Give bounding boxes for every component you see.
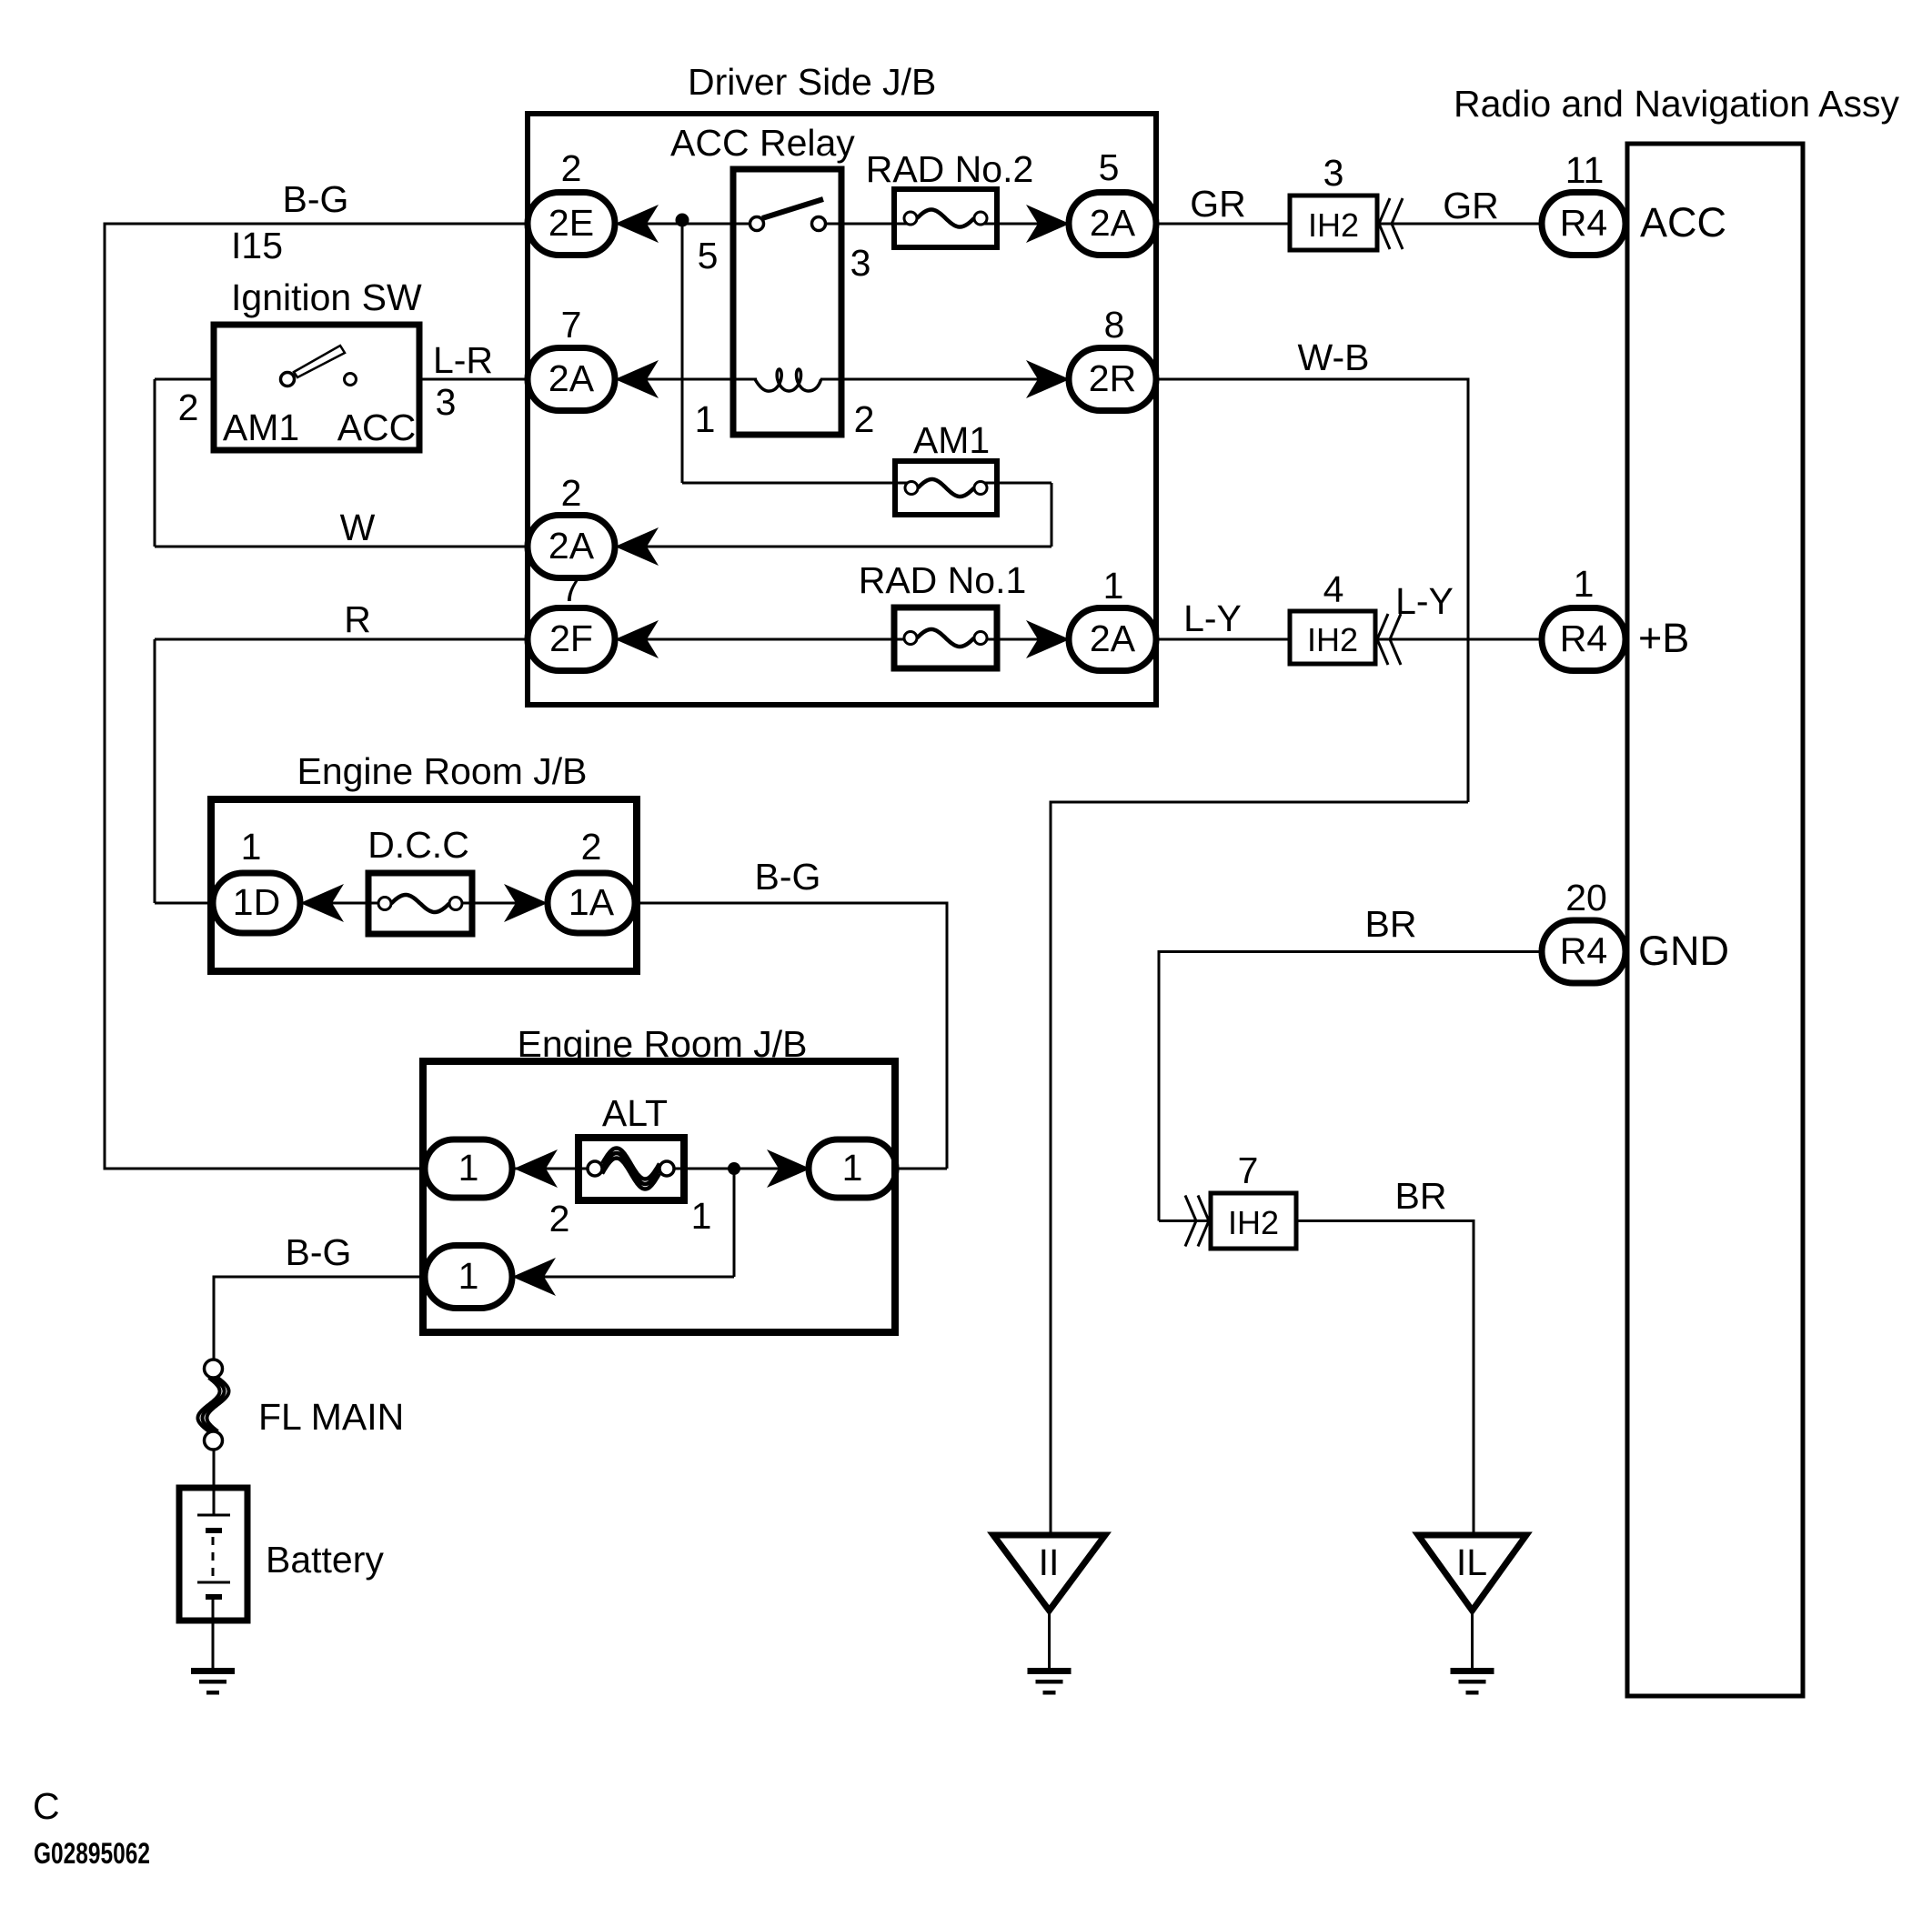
junction box Engine Room J/B upper	[211, 750, 637, 971]
connector 1D pin1	[213, 826, 300, 933]
svg-text:8: 8	[1104, 304, 1125, 346]
wire B-G 1A to Engine Room J/B 2	[635, 902, 947, 1169]
label GR left	[1190, 183, 1246, 225]
wire BR R4 pin20 to IH2 pin7	[1159, 950, 1541, 1221]
fusible link ALT box	[579, 1092, 684, 1200]
svg-text:Battery: Battery	[266, 1539, 384, 1581]
junction box Engine Room J/B upper border	[211, 799, 637, 971]
connector 2A pin5	[1069, 146, 1156, 256]
junction box Engine Room J/B lower	[423, 1023, 895, 1332]
arrow into 1A	[504, 884, 548, 922]
connector 1 right of ALT	[809, 1139, 896, 1198]
wire ALT row	[514, 1168, 810, 1170]
ground below battery	[191, 1668, 235, 1695]
svg-text:3: 3	[850, 242, 871, 284]
wire relay sw to RAD No.2 fuse	[819, 223, 912, 226]
label relay pin 1	[695, 398, 716, 440]
svg-text:1: 1	[691, 1195, 712, 1237]
wire B-G bottom oval to FL MAIN	[214, 1276, 425, 1360]
wire 2A pin7 to relay coil	[615, 378, 757, 381]
arrow into 2F	[615, 620, 659, 658]
arrow into 2A pin7	[615, 360, 659, 398]
svg-text:L-R: L-R	[433, 339, 493, 381]
wire 2A pin1 to IH2 pin4	[1156, 638, 1290, 641]
wire W-B horizontal to II branch	[1051, 801, 1468, 1536]
svg-text:IH2: IH2	[1308, 206, 1359, 244]
svg-text:R: R	[344, 598, 371, 640]
svg-text:1: 1	[241, 826, 262, 868]
svg-text:3: 3	[1323, 152, 1344, 194]
connector 1 left of ALT	[425, 1139, 512, 1198]
svg-text:B-G: B-G	[283, 178, 349, 220]
arrow into 2R	[1026, 360, 1070, 398]
wire W-B 2R right and down	[1156, 378, 1468, 803]
fuse RAD No.2	[866, 148, 1034, 247]
battery plates	[197, 1515, 230, 1668]
connector 2A pin2	[528, 472, 615, 578]
svg-text:7: 7	[561, 304, 582, 346]
connector IH2 pin4	[1290, 568, 1375, 664]
arrow into 1D	[300, 884, 344, 922]
svg-text:2: 2	[854, 398, 875, 440]
wire 2A to IH2 pin3	[1156, 223, 1290, 226]
svg-text:1: 1	[842, 1147, 863, 1189]
chevron at IH2 pin3	[1379, 198, 1403, 249]
label ALT pin 2	[549, 1198, 570, 1240]
svg-text:B-G: B-G	[755, 856, 821, 898]
svg-text:Driver Side J/B: Driver Side J/B	[688, 61, 936, 103]
svg-text:B-G: B-G	[286, 1231, 352, 1273]
junction box Driver Side J/B	[528, 61, 1156, 705]
wire IL to ground	[1471, 1611, 1474, 1668]
svg-text:R4: R4	[1560, 930, 1607, 972]
label B-G top	[283, 178, 349, 220]
label B-G bottom	[286, 1231, 352, 1273]
connector 2R pin8	[1069, 304, 1156, 411]
svg-text:AM1: AM1	[913, 419, 990, 461]
svg-text:11: 11	[1565, 149, 1605, 191]
wire junction down to AM1 fuse	[682, 224, 912, 483]
label Battery	[266, 1539, 384, 1581]
label G02895062	[34, 1837, 150, 1870]
svg-text:GND: GND	[1638, 928, 1729, 974]
connector 1 bottom	[425, 1246, 512, 1309]
label B-G mid	[755, 856, 821, 898]
arrow into bottom 1	[512, 1258, 556, 1296]
svg-text:Engine Room J/B: Engine Room J/B	[297, 750, 587, 792]
connector 2A pin1	[1069, 565, 1156, 671]
svg-text:II: II	[1039, 1541, 1060, 1583]
svg-text:7: 7	[561, 567, 582, 609]
connector R4 pin1 +B	[1542, 563, 1689, 671]
svg-text:AM1: AM1	[223, 406, 299, 448]
fuse RAD No.1	[859, 559, 1027, 668]
svg-text:2: 2	[561, 147, 582, 189]
wire 2F to RAD No.1 fuse	[615, 638, 912, 641]
connector 2F pin7	[528, 567, 615, 671]
fusible link ALT strands	[602, 1149, 659, 1189]
wire L-R ignition pin3 to 2A pin7	[419, 378, 528, 381]
arrow into left 1	[514, 1149, 558, 1188]
wire IH2 pin3 to R4 pin11	[1377, 223, 1542, 226]
junction box Driver Side J/B border	[528, 114, 1156, 705]
fusible link ALT terminals	[588, 1161, 674, 1176]
svg-text:2R: 2R	[1089, 357, 1136, 399]
svg-text:2: 2	[581, 826, 602, 868]
svg-text:2: 2	[561, 472, 582, 514]
connector IH2 pin7	[1211, 1149, 1296, 1249]
svg-text:1: 1	[458, 1255, 479, 1297]
chevron at IH2 pin7	[1185, 1196, 1209, 1247]
label relay pin 3	[850, 242, 871, 284]
svg-text:2A: 2A	[1090, 202, 1136, 244]
svg-text:2A: 2A	[548, 525, 595, 567]
connector 2A pin7	[528, 304, 615, 411]
arrow into 2A pin2	[615, 527, 659, 566]
wire AM1 fuse to 2A pin2	[615, 483, 1052, 547]
ground below II	[1028, 1668, 1072, 1695]
relay switch contacts	[750, 217, 826, 231]
svg-text:ACC: ACC	[337, 406, 417, 448]
svg-text:ACC: ACC	[1640, 199, 1726, 246]
label L-Y left	[1183, 597, 1242, 639]
svg-text:RAD No.2: RAD No.2	[866, 148, 1034, 190]
label BR upper	[1365, 903, 1417, 945]
wire RAD No.1 fuse to 2A pin1	[979, 638, 1071, 641]
svg-text:ACC Relay: ACC Relay	[670, 122, 855, 164]
svg-text:I15: I15	[231, 225, 283, 266]
svg-text:20: 20	[1565, 877, 1607, 918]
switch contacts ignition	[281, 373, 357, 386]
wire ignition SW pin2 to 2A W row	[155, 379, 528, 547]
connector R4 pin20 GND	[1542, 877, 1729, 983]
svg-text:BR: BR	[1395, 1175, 1447, 1217]
ground triangle II	[993, 1535, 1105, 1611]
battery box	[179, 1488, 247, 1621]
label L-Y right	[1395, 580, 1454, 622]
label W-B	[1298, 336, 1370, 378]
svg-text:Radio and Navigation Assy: Radio and Navigation Assy	[1454, 83, 1900, 125]
svg-text:1: 1	[458, 1147, 479, 1189]
wire junction down to bottom oval	[512, 1169, 734, 1277]
wire RAD No.2 fuse to 2A	[979, 223, 1071, 226]
svg-text:C: C	[33, 1785, 60, 1827]
arrow into right 1	[767, 1149, 810, 1188]
ground triangle IL	[1418, 1535, 1526, 1611]
component box Radio and Navigation Assy border	[1627, 144, 1803, 1696]
wire R 2F to Engine Room J/B	[155, 639, 528, 903]
wire D.C.C row inside Engine Room J/B	[298, 902, 549, 905]
svg-text:IH2: IH2	[1228, 1204, 1279, 1241]
label ALT pin 1	[691, 1195, 712, 1237]
label W	[340, 507, 376, 548]
label BR lower	[1395, 1175, 1447, 1217]
connector IH2 pin3	[1290, 152, 1377, 250]
fuse D.C.C	[367, 824, 472, 934]
node junction ALT output	[728, 1162, 740, 1175]
ground below IL	[1451, 1668, 1494, 1695]
relay ACC Relay box	[670, 122, 855, 435]
svg-text:GR: GR	[1190, 183, 1246, 225]
wire IH2 pin4 to R4 pin1	[1375, 638, 1542, 641]
junction box Engine Room J/B lower border	[423, 1061, 895, 1332]
svg-text:5: 5	[698, 235, 719, 276]
svg-text:3: 3	[436, 381, 457, 423]
svg-text:1: 1	[1574, 563, 1595, 605]
svg-text:4: 4	[1323, 568, 1344, 610]
svg-text:R4: R4	[1560, 202, 1607, 244]
label L-R	[433, 339, 493, 381]
connector 2E pin2	[528, 147, 615, 256]
switch lever ignition	[294, 346, 345, 377]
svg-text:L-Y: L-Y	[1395, 580, 1454, 622]
svg-text:1D: 1D	[233, 881, 280, 923]
svg-text:2A: 2A	[548, 357, 595, 399]
label AM1 ACC ignition terminals	[223, 406, 416, 448]
fusible link FL MAIN	[198, 1360, 405, 1450]
svg-text:1A: 1A	[569, 881, 615, 923]
svg-text:2F: 2F	[549, 617, 593, 659]
label R	[344, 598, 371, 640]
component box I15 Ignition SW	[214, 225, 422, 450]
svg-text:2A: 2A	[1090, 617, 1136, 659]
relay switch lever	[762, 199, 823, 218]
node junction at 2E branch	[676, 214, 689, 227]
svg-text:GR: GR	[1443, 185, 1499, 226]
wire 2E to ACC relay with junction	[615, 223, 757, 226]
component box Radio and Navigation Assy	[1454, 83, 1900, 1696]
arrow into 2A pin1	[1026, 620, 1070, 658]
svg-text:BR: BR	[1365, 903, 1417, 945]
wire B-G from battery branch to 2E	[105, 223, 528, 1170]
wire FL MAIN to battery	[213, 1450, 216, 1515]
connector R4 pin11 ACC	[1542, 149, 1726, 256]
svg-text:2E: 2E	[548, 202, 594, 244]
svg-text:D.C.C: D.C.C	[367, 824, 469, 866]
svg-text:1: 1	[695, 398, 716, 440]
svg-text:RAD No.1: RAD No.1	[859, 559, 1027, 601]
wire relay coil to 2R	[820, 378, 1071, 381]
label GR right	[1443, 185, 1499, 226]
label C	[33, 1785, 60, 1827]
svg-text:FL MAIN: FL MAIN	[258, 1396, 404, 1438]
svg-text:ALT: ALT	[602, 1092, 668, 1134]
chevron at IH2 pin4	[1377, 614, 1401, 665]
label pin 3 ignition	[436, 381, 457, 423]
svg-text:R4: R4	[1560, 617, 1607, 659]
arrow into 2A pin5	[1026, 205, 1070, 243]
wire BR IH2 pin7 to IL branch	[1296, 1219, 1474, 1535]
svg-text:G02895062: G02895062	[34, 1837, 150, 1870]
svg-text:W: W	[340, 507, 376, 548]
svg-text:2: 2	[549, 1198, 570, 1240]
connector 1A pin2	[548, 826, 635, 933]
fuse AM1	[895, 419, 997, 515]
svg-text:Ignition SW: Ignition SW	[231, 276, 422, 318]
svg-text:L-Y: L-Y	[1183, 597, 1242, 639]
svg-text:+B: +B	[1638, 615, 1689, 661]
svg-text:1: 1	[1103, 565, 1124, 607]
label pin 2 ignition	[178, 386, 199, 428]
svg-text:IH2: IH2	[1307, 621, 1358, 658]
relay coil	[755, 369, 821, 391]
arrow into 2E	[615, 205, 659, 243]
label relay pin 5	[698, 235, 719, 276]
svg-text:W-B: W-B	[1298, 336, 1370, 378]
svg-text:5: 5	[1099, 146, 1120, 188]
svg-text:2: 2	[178, 386, 199, 428]
svg-text:7: 7	[1238, 1149, 1259, 1191]
wire row G left to Engine Room J/B #2 oval	[105, 1168, 425, 1170]
label relay pin 2	[854, 398, 875, 440]
svg-text:IL: IL	[1456, 1541, 1487, 1583]
wire II to ground	[1048, 1611, 1051, 1668]
